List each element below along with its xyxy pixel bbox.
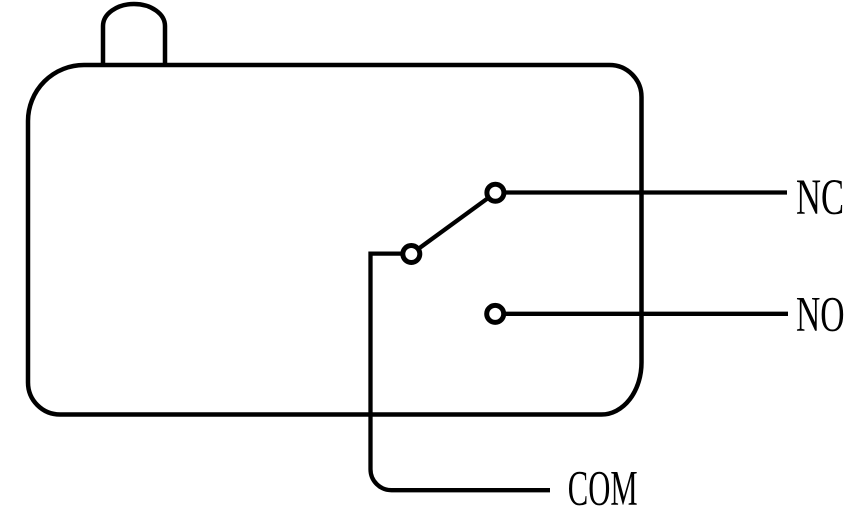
svg-text:COM: COM bbox=[568, 460, 638, 516]
svg-text:NC: NC bbox=[796, 170, 844, 226]
svg-text:NO: NO bbox=[796, 286, 845, 342]
